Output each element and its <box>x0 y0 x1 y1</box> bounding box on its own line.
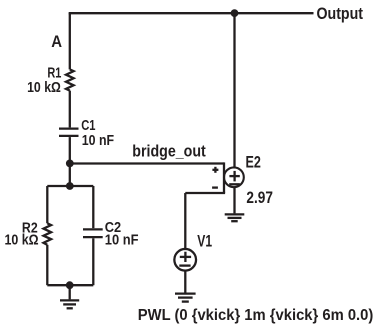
svg-text:10 nF: 10 nF <box>82 133 114 149</box>
svg-text:10 kΩ: 10 kΩ <box>5 232 39 248</box>
svg-text:A: A <box>51 32 62 51</box>
svg-text:10 kΩ: 10 kΩ <box>27 80 61 96</box>
svg-text:V1: V1 <box>197 232 212 250</box>
svg-text:10 nF: 10 nF <box>105 233 139 249</box>
svg-text:E2: E2 <box>246 153 261 171</box>
svg-text:C1: C1 <box>81 118 95 134</box>
svg-text:bridge_out: bridge_out <box>132 142 206 160</box>
svg-text:PWL (0 {vkick} 1m {vkick} 6m 0: PWL (0 {vkick} 1m {vkick} 6m 0.0) <box>138 307 373 324</box>
svg-text:2.97: 2.97 <box>246 189 273 207</box>
svg-text:Output: Output <box>317 5 364 23</box>
